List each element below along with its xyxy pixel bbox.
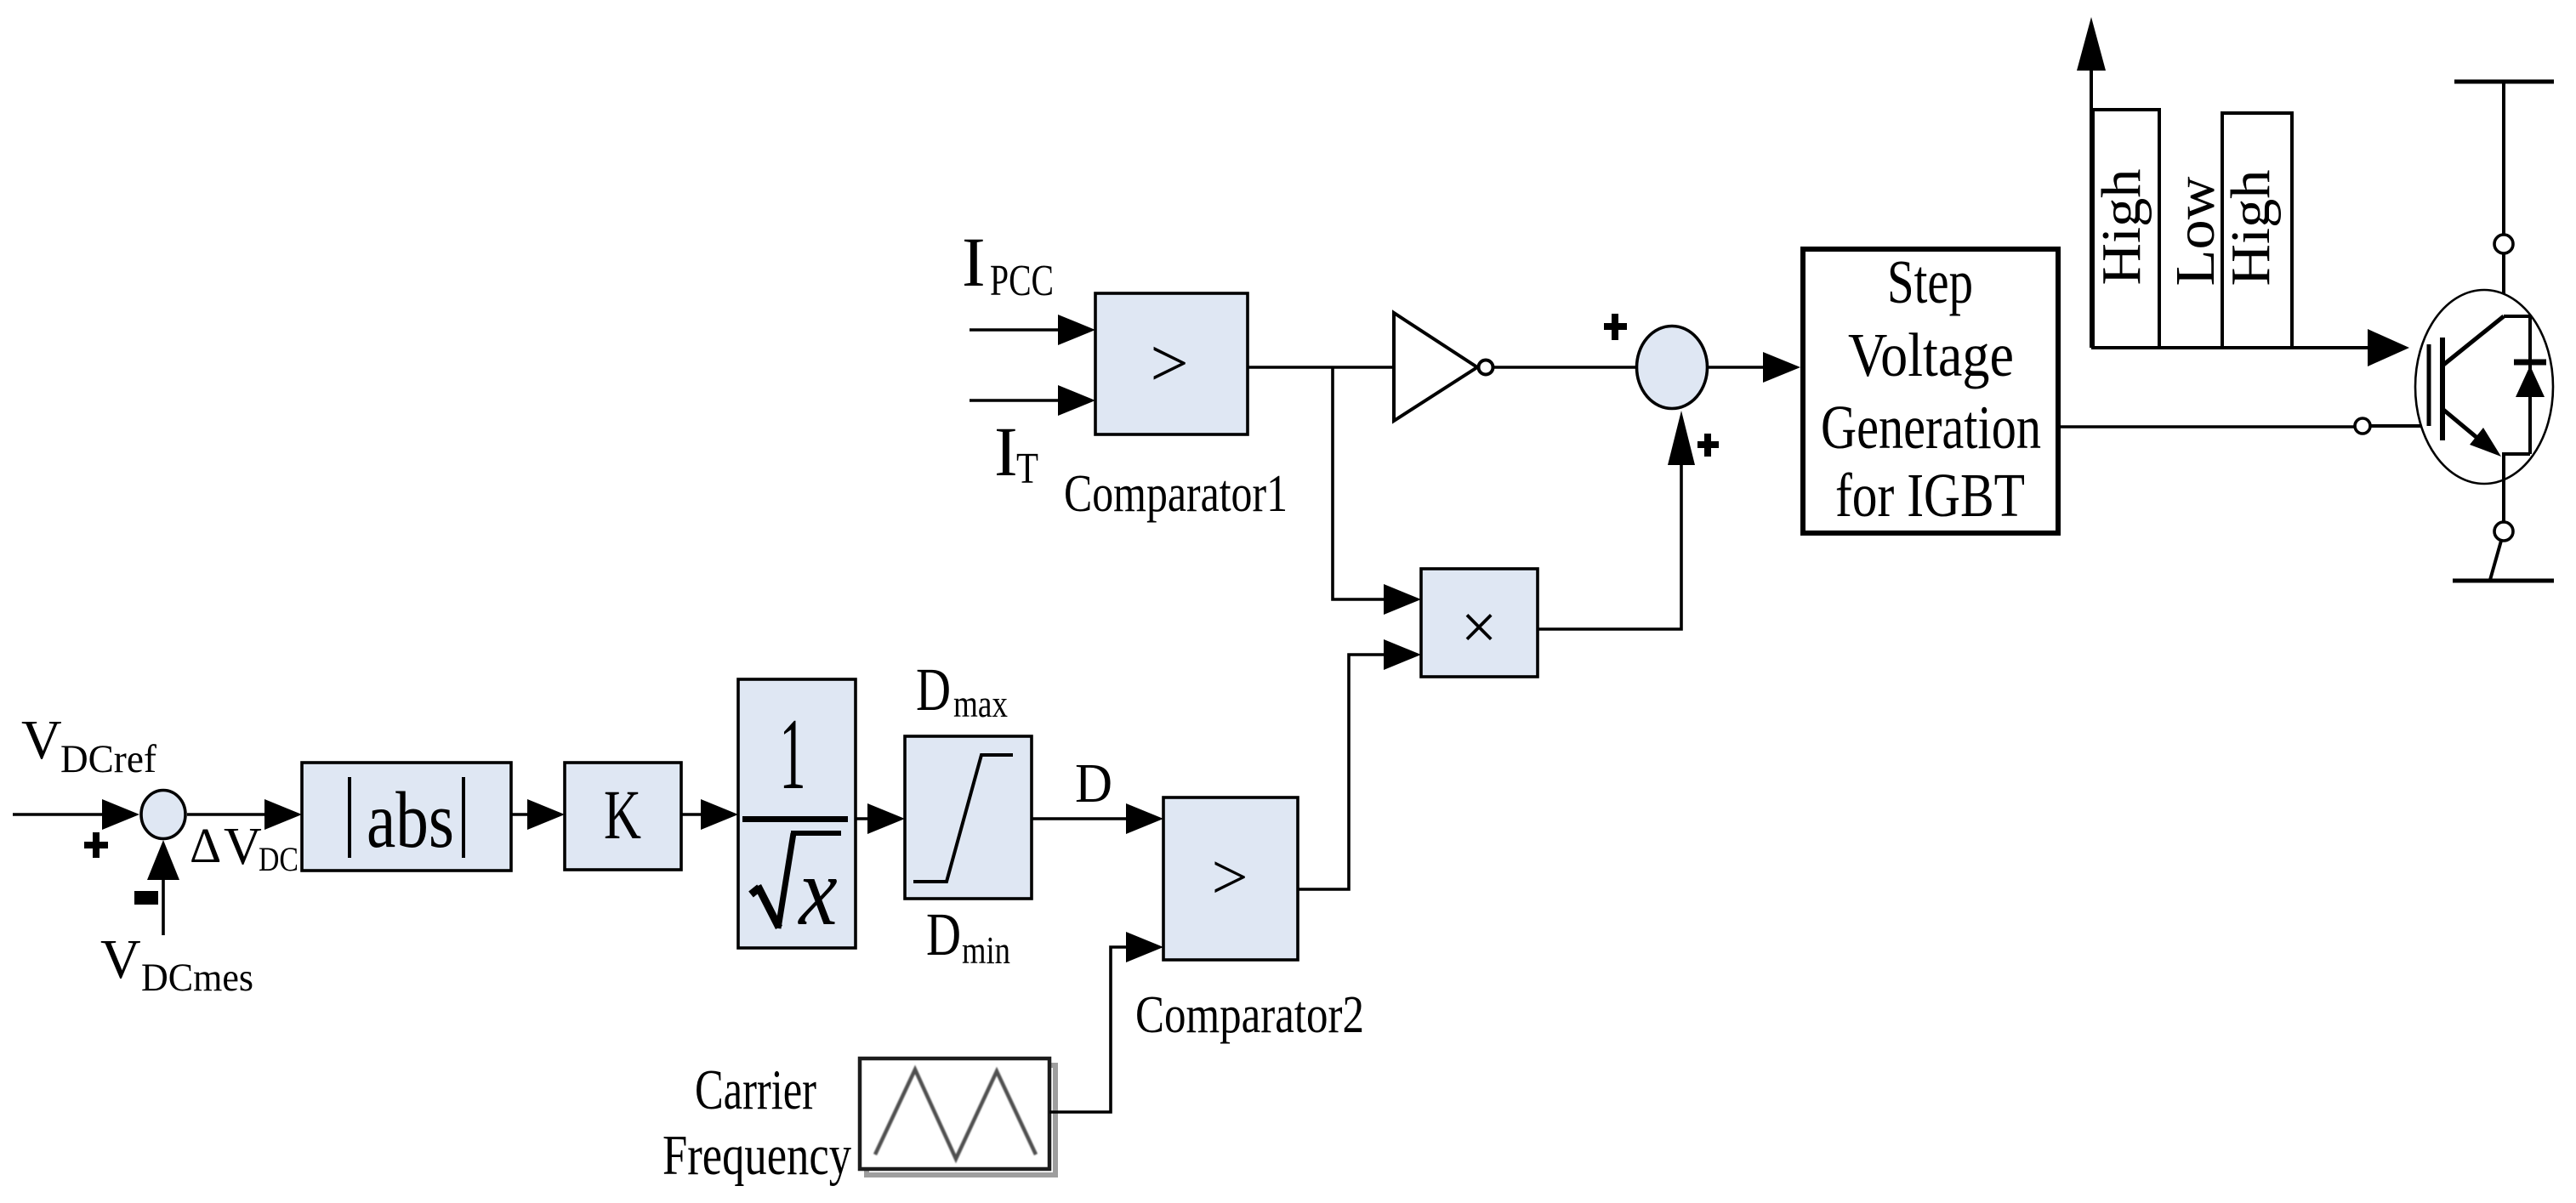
wire carrier to comparator2 <box>1049 947 1131 1112</box>
svg-text:High: High <box>2090 169 2152 286</box>
svg-text:max: max <box>953 682 1008 725</box>
svg-text:>: > <box>1150 326 1188 401</box>
IGBT top rail <box>2454 80 2554 84</box>
terminal emitter circle <box>2494 522 2513 541</box>
svg-text:PCC: PCC <box>990 257 1054 305</box>
wire comparator1 to NOT <box>1248 366 1399 369</box>
gate bar <box>2427 344 2431 426</box>
wire IPCC input <box>970 328 1061 332</box>
plus sign S2 bottom-right <box>1697 434 1719 457</box>
collector horizontal to diode <box>2504 315 2530 318</box>
wire S1 to abs <box>187 813 268 816</box>
emitter vertical down <box>2502 454 2505 522</box>
svg-text:Step: Step <box>1887 247 1973 316</box>
collector angled <box>2442 316 2504 366</box>
svg-text:I: I <box>994 412 1018 491</box>
block abs <box>302 763 511 871</box>
summer S1 <box>141 791 185 839</box>
gate NOT <box>1394 313 1477 421</box>
svg-text:min: min <box>962 928 1010 972</box>
pulse High 2 <box>2222 113 2292 348</box>
svg-text:T: T <box>1016 445 1038 493</box>
waveform axis horizontal <box>2091 346 2373 349</box>
wire S2 to step box <box>1709 366 1766 369</box>
wire IT input <box>970 399 1061 402</box>
terminal gate circle <box>2355 418 2370 434</box>
svg-text:High: High <box>2220 170 2282 287</box>
svg-text:K: K <box>604 775 641 854</box>
block multiplier <box>1421 569 1538 677</box>
svg-text:Voltage: Voltage <box>1848 321 2014 389</box>
svg-text:Frequency: Frequency <box>662 1124 851 1187</box>
wire NOT to summer S2 <box>1493 366 1637 369</box>
wire sat to comparator2 (node D) <box>1032 817 1129 820</box>
diode D1 <box>2528 316 2532 454</box>
svg-text:DCref: DCref <box>60 737 156 781</box>
wire step box gate output <box>2061 425 2355 428</box>
wire VDCmes vertical <box>162 867 165 935</box>
wire abs to K <box>511 813 532 816</box>
wire comparator2 to multiplier <box>1298 655 1386 889</box>
svg-text:Comparator2: Comparator2 <box>1135 986 1364 1044</box>
svg-text:Low: Low <box>2164 176 2226 286</box>
wire emitter bottom <box>2490 541 2501 580</box>
block 1/sqrt(x) <box>738 679 856 948</box>
wire branch down to multiplier input1 <box>1333 367 1386 599</box>
svg-text:I: I <box>962 223 986 301</box>
svg-text:V: V <box>100 928 141 990</box>
block saturation <box>905 736 1032 899</box>
waveform axis vertical <box>2090 64 2093 348</box>
svg-text:DC: DC <box>259 840 299 878</box>
wire sqrt to sat <box>856 817 872 820</box>
plus sign S2 top-left <box>1604 314 1627 340</box>
pulse High 1 <box>2093 110 2159 348</box>
svg-text:abs: abs <box>367 776 454 865</box>
svg-text:DCmes: DCmes <box>141 956 253 1000</box>
svg-text:Generation: Generation <box>1821 393 2041 462</box>
block step voltage generation <box>1803 249 2058 533</box>
svg-text:Δ: Δ <box>190 818 221 873</box>
body bar <box>2440 338 2445 440</box>
svg-text:V: V <box>21 709 62 771</box>
wire into ellipse <box>2502 253 2505 316</box>
svg-text:D: D <box>926 900 961 968</box>
plus sign S1 left <box>84 832 108 858</box>
block comparator2 <box>1163 797 1298 960</box>
wire VDCref input <box>13 813 106 816</box>
terminal collector circle <box>2494 235 2513 253</box>
wire collector top <box>2502 82 2505 235</box>
svg-text:×: × <box>1461 592 1498 663</box>
svg-text:Comparator1: Comparator1 <box>1064 465 1288 523</box>
transistor IGBT body <box>2415 290 2553 484</box>
wire multiplier to S2 <box>1538 459 1681 629</box>
block K <box>565 763 681 870</box>
svg-text:1: 1 <box>779 697 805 810</box>
svg-text:Carrier: Carrier <box>695 1058 816 1121</box>
block comparator1 <box>1095 293 1248 434</box>
block carrier (repeating sequence) <box>867 1065 1055 1175</box>
wire gate lead <box>2370 424 2429 428</box>
svg-text:D: D <box>1075 752 1112 814</box>
svg-text:D: D <box>916 655 951 724</box>
emitter angled with arrow <box>2442 409 2483 443</box>
svg-text:for IGBT: for IGBT <box>1835 461 2025 530</box>
minus sign S1 bottom <box>134 891 158 905</box>
IGBT bottom rail <box>2453 579 2554 583</box>
svg-text:V: V <box>224 818 262 876</box>
svg-text:x: x <box>797 837 837 945</box>
svg-text:>: > <box>1212 842 1248 913</box>
wire K to sqrt <box>681 813 706 816</box>
emitter horizontal <box>2502 452 2530 456</box>
summer S2 <box>1637 326 1708 409</box>
